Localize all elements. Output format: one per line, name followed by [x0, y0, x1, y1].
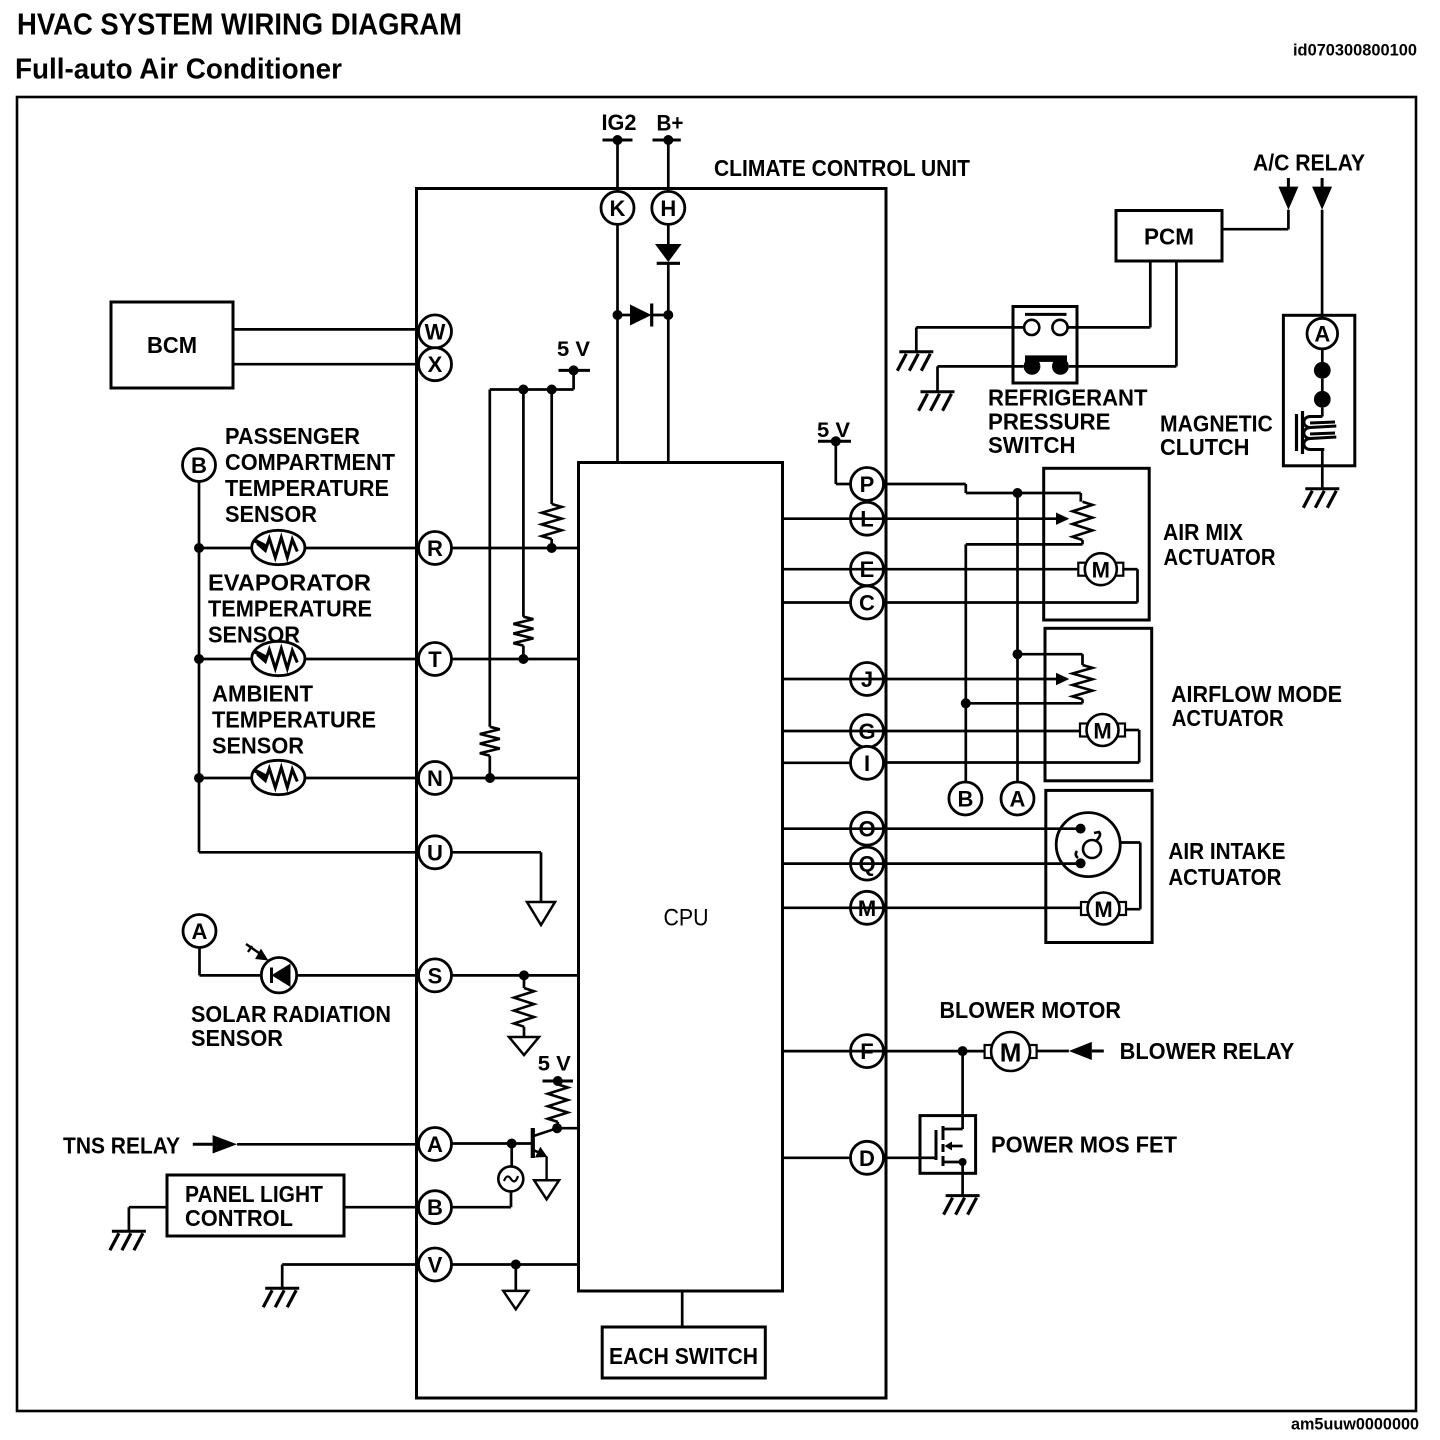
- label passenger compartment temperature sensor: [225, 423, 395, 527]
- label EACH SWITCH: [609, 1343, 758, 1369]
- wire Q into drum: [783, 858, 1086, 868]
- wire motor1 to C row: [884, 569, 1138, 602]
- svg-text:5 V: 5 V: [538, 1053, 571, 1076]
- power MOS FET box: [920, 1116, 976, 1174]
- svg-text:M: M: [1093, 719, 1111, 744]
- PCM box: [1116, 211, 1222, 262]
- wire H line below D1 to CPU: [667, 315, 670, 463]
- svg-text:P: P: [860, 472, 875, 497]
- doc id bottom right: [1291, 1415, 1419, 1434]
- svg-text:SOLAR RADIATION: SOLAR RADIATION: [191, 1001, 391, 1027]
- connector X: [419, 348, 452, 381]
- svg-text:A/C RELAY: A/C RELAY: [1253, 150, 1365, 176]
- wire S to CPU: [452, 974, 579, 977]
- wire coil to ground: [1321, 450, 1324, 489]
- resistor N-row pull-up: [480, 390, 500, 779]
- svg-text:ACTUATOR: ACTUATOR: [1168, 864, 1281, 890]
- connector R: [419, 532, 452, 565]
- label MAGNETIC CLUTCH: [1160, 411, 1273, 460]
- wire O into drum: [783, 824, 1086, 834]
- label ambient temperature sensor: [212, 681, 376, 759]
- blower motor M4: [985, 1032, 1037, 1071]
- svg-text:C: C: [859, 591, 875, 616]
- svg-text:BLOWER MOTOR: BLOWER MOTOR: [940, 997, 1122, 1023]
- label CLIMATE CONTROL UNIT: [714, 155, 970, 181]
- air mix actuator box: [1044, 468, 1150, 620]
- svg-text:TEMPERATURE: TEMPERATURE: [212, 707, 376, 733]
- svg-text:BLOWER RELAY: BLOWER RELAY: [1120, 1038, 1295, 1064]
- svg-text:N: N: [427, 766, 443, 791]
- svg-text:Full-auto Air Conditioner: Full-auto Air Conditioner: [15, 54, 342, 86]
- resistor R-row pull-up: [542, 390, 562, 549]
- chassis ground (switch bottom): [919, 392, 955, 411]
- svg-text:HVAC SYSTEM WIRING DIAGRAM: HVAC SYSTEM WIRING DIAGRAM: [17, 7, 462, 42]
- svg-text:EVAPORATOR: EVAPORATOR: [208, 570, 371, 596]
- terminal IG2: [602, 110, 637, 145]
- svg-text:PCM: PCM: [1144, 224, 1194, 250]
- svg-text:CPU: CPU: [664, 905, 709, 932]
- svg-text:ACTUATOR: ACTUATOR: [1172, 705, 1284, 731]
- connector I: [851, 746, 884, 779]
- clutch coil L1: [1297, 411, 1337, 454]
- doc id top right: [1293, 41, 1417, 60]
- svg-text:SWITCH: SWITCH: [988, 432, 1076, 458]
- pressure switch top bar: [1025, 313, 1067, 316]
- wire B to lamp: [452, 1206, 512, 1209]
- node bus R: [194, 543, 204, 553]
- wire P to air mix pot: [884, 484, 1081, 502]
- node on 5V bus (R pull-up): [547, 385, 557, 395]
- motor M3 (air intake): [1081, 893, 1126, 925]
- diode D1 (series on B+ line): [655, 244, 682, 315]
- wire T row left: [199, 658, 419, 661]
- svg-text:EACH SWITCH: EACH SWITCH: [609, 1343, 758, 1369]
- wire switch bottom-right to PCM: [1069, 261, 1177, 366]
- svg-text:AMBIENT: AMBIENT: [212, 681, 313, 707]
- svg-text:R: R: [427, 536, 443, 561]
- chassis ground (V): [263, 1288, 299, 1307]
- chassis ground (mosfet): [944, 1196, 980, 1215]
- signal ground below emitter: [534, 1180, 559, 1199]
- wire V to CPU: [452, 1263, 579, 1266]
- connector U: [419, 836, 452, 869]
- svg-text:M: M: [1092, 558, 1110, 583]
- arrow from A/C relay (to clutch): [1312, 178, 1332, 210]
- label PCM: [1144, 224, 1194, 250]
- panel light control box: [167, 1175, 344, 1236]
- node N row: [485, 773, 495, 783]
- node A-line top: [1013, 488, 1023, 498]
- connector A (TNS): [419, 1128, 452, 1161]
- node V pull-down: [511, 1260, 521, 1270]
- svg-text:AIR INTAKE: AIR INTAKE: [1168, 838, 1285, 864]
- clutch contact link: [1321, 379, 1324, 391]
- node bus N: [194, 773, 204, 783]
- connector E: [851, 553, 884, 586]
- wire R to CPU: [452, 547, 579, 550]
- svg-text:V: V: [428, 1253, 443, 1278]
- wire F to blower: [783, 1050, 986, 1053]
- wire motor2 to I row: [884, 730, 1140, 763]
- wire B+ to H: [667, 140, 670, 192]
- label evaporator temperature sensor: [208, 570, 372, 648]
- svg-text:SENSOR: SENSOR: [225, 501, 317, 527]
- air intake switch drum: [1056, 813, 1120, 877]
- resistor T-row pull-up: [513, 390, 533, 660]
- svg-text:B: B: [191, 453, 207, 478]
- motor M2 (airflow mode): [1080, 714, 1125, 746]
- connector N: [419, 762, 452, 795]
- svg-text:POWER MOS FET: POWER MOS FET: [991, 1132, 1177, 1158]
- svg-text:AIR MIX: AIR MIX: [1163, 519, 1244, 545]
- connector C: [851, 586, 884, 619]
- signal ground below U: [527, 902, 555, 925]
- connector O: [851, 812, 884, 845]
- chassis ground (switch top): [897, 352, 933, 371]
- svg-text:B: B: [957, 787, 973, 812]
- wire A to transistor base: [452, 1142, 533, 1145]
- pressure switch contact R (open): [1052, 320, 1067, 335]
- magnetic clutch box: [1283, 315, 1354, 466]
- node blower/mosfet: [958, 1046, 968, 1056]
- solar radiation sensor (photodiode): [246, 944, 297, 993]
- wire 5V bus: [490, 370, 574, 389]
- svg-text:S: S: [428, 963, 443, 988]
- label REFRIGERANT PRESSURE SWITCH: [988, 385, 1148, 458]
- svg-text:AIRFLOW MODE: AIRFLOW MODE: [1171, 681, 1342, 707]
- connector S: [419, 959, 452, 992]
- svg-text:am5uuw0000000: am5uuw0000000: [1291, 1415, 1419, 1434]
- svg-text:M: M: [1000, 1038, 1022, 1068]
- svg-text:T: T: [428, 647, 442, 672]
- airflow mode actuator box: [1045, 628, 1152, 781]
- wire A-line vertical: [1016, 493, 1019, 782]
- node S pull-down: [519, 970, 529, 980]
- wire B-line vertical: [964, 544, 967, 782]
- wire pot2 top: [1018, 654, 1083, 665]
- title: HVAC SYSTEM WIRING DIAGRAM: [17, 7, 462, 42]
- svg-text:I: I: [864, 751, 870, 776]
- svg-text:id070300800100: id070300800100: [1293, 41, 1417, 60]
- connector F: [851, 1035, 884, 1068]
- wire H to diode D1: [667, 224, 670, 244]
- svg-text:TEMPERATURE: TEMPERATURE: [208, 596, 372, 622]
- signal ground below S resistor: [509, 1037, 539, 1055]
- connector G: [851, 715, 884, 748]
- arrow from TNS relay: [193, 1135, 237, 1153]
- connector A (clutch): [1307, 318, 1338, 349]
- connector K: [601, 191, 634, 224]
- label BCM: [147, 332, 197, 358]
- wire A to S row: [200, 948, 262, 976]
- connector Q: [851, 847, 884, 880]
- wire solar to S: [296, 974, 419, 977]
- node bus T: [194, 654, 204, 664]
- wire K to CPU: [616, 224, 619, 462]
- clutch contact dot 2: [1314, 391, 1331, 408]
- wire I to CPU: [783, 761, 851, 764]
- terminal 5V (P row): [817, 419, 851, 446]
- label CPU: [664, 905, 709, 932]
- wire G to motor2: [783, 730, 1082, 733]
- thermistor passenger compartment sensor: [252, 530, 305, 564]
- refrigerant pressure switch box: [1013, 307, 1077, 384]
- signal ground below V: [503, 1291, 528, 1309]
- wire C to CPU: [783, 601, 851, 604]
- svg-text:SENSOR: SENSOR: [212, 733, 304, 759]
- wire sensor bus vertical: [198, 482, 201, 853]
- node on 5V bus (T pull-up): [518, 385, 528, 395]
- wire relay arrow to clutch: [1321, 210, 1324, 319]
- svg-text:A: A: [1010, 787, 1026, 812]
- connector D: [851, 1141, 884, 1174]
- svg-text:B+: B+: [657, 111, 684, 136]
- wire switch top-right to PCM: [1068, 261, 1151, 327]
- svg-text:PANEL LIGHT: PANEL LIGHT: [185, 1181, 323, 1207]
- connector A (pot supply): [1001, 782, 1034, 815]
- label PANEL LIGHT CONTROL: [185, 1181, 323, 1231]
- svg-text:A: A: [192, 919, 208, 944]
- wire 5V to P: [836, 441, 851, 484]
- wire dot2 to coil: [1309, 408, 1322, 417]
- wire panel light to ground: [129, 1207, 167, 1231]
- wire blower to relay arrow: [1036, 1050, 1069, 1053]
- svg-text:TNS RELAY: TNS RELAY: [63, 1133, 180, 1159]
- svg-text:IG2: IG2: [602, 110, 637, 135]
- wire pot1 bottom to B-line: [966, 543, 1083, 546]
- svg-text:5 V: 5 V: [557, 338, 590, 361]
- svg-text:B: B: [427, 1195, 443, 1220]
- wire relay arrow to PCM: [1222, 210, 1288, 230]
- connector H: [652, 191, 685, 224]
- connector B (panel light): [419, 1191, 452, 1224]
- wire N to CPU: [452, 777, 579, 780]
- wire mosfet source to ground: [961, 1173, 964, 1195]
- svg-text:A: A: [1314, 322, 1330, 347]
- wire switch top-left to ground: [916, 327, 1024, 351]
- svg-text:ACTUATOR: ACTUATOR: [1164, 544, 1276, 570]
- clutch contact wire: [1321, 349, 1324, 362]
- diode D2 (K to H cross tie): [613, 304, 674, 327]
- svg-text:REFRIGERANT: REFRIGERANT: [988, 385, 1148, 411]
- potentiometer airflow mode: [1073, 665, 1093, 703]
- connector V: [419, 1248, 452, 1281]
- svg-text:A: A: [427, 1132, 443, 1157]
- svg-text:X: X: [428, 352, 443, 377]
- arrow from blower relay: [1069, 1042, 1104, 1060]
- pressure switch closed contacts: [1024, 355, 1069, 374]
- terminal B+: [653, 111, 684, 146]
- node base/lamp: [507, 1139, 517, 1149]
- svg-text:SENSOR: SENSOR: [191, 1025, 283, 1051]
- svg-text:5 V: 5 V: [817, 419, 850, 442]
- wire R row left: [199, 547, 419, 550]
- label A/C RELAY: [1253, 150, 1365, 176]
- subtitle: Full-auto Air Conditioner: [15, 54, 342, 86]
- svg-text:M: M: [1094, 897, 1112, 922]
- svg-text:W: W: [425, 319, 446, 344]
- wire BCM to W: [233, 328, 419, 331]
- label AIR MIX ACTUATOR: [1163, 519, 1276, 570]
- svg-text:COMPARTMENT: COMPARTMENT: [225, 449, 395, 475]
- resistor S pull-down: [514, 975, 534, 1037]
- chassis ground (panel light): [110, 1231, 146, 1250]
- wire collector node to CPU: [557, 1127, 578, 1130]
- svg-text:K: K: [610, 196, 626, 221]
- wire TNS to A: [237, 1143, 418, 1146]
- wire BCM to X: [233, 363, 419, 366]
- wire blower node to mosfet drain: [961, 1051, 964, 1116]
- MOSFET Q2 internals: [920, 1116, 967, 1174]
- svg-text:TEMPERATURE: TEMPERATURE: [225, 475, 389, 501]
- connector T: [419, 643, 452, 676]
- svg-text:BCM: BCM: [147, 332, 197, 358]
- node pot2 top: [1013, 649, 1023, 659]
- thermistor ambient sensor: [252, 760, 305, 794]
- svg-text:CLUTCH: CLUTCH: [1160, 434, 1250, 460]
- climate control unit box: [417, 189, 887, 1399]
- svg-text:PASSENGER: PASSENGER: [225, 423, 360, 449]
- connector B (sensor ground bus): [183, 449, 216, 482]
- terminal 5V (panel light): [538, 1053, 573, 1086]
- svg-text:PRESSURE: PRESSURE: [988, 409, 1111, 435]
- wire IG2 to K: [616, 140, 619, 192]
- clutch contact dot 1: [1314, 362, 1331, 379]
- wire M to motor3: [783, 906, 1083, 909]
- pressure switch contact L (open): [1024, 320, 1039, 335]
- arrow from A/C relay (to PCM): [1278, 178, 1298, 210]
- node T row: [518, 654, 528, 664]
- connector J: [851, 663, 884, 696]
- label AIR INTAKE ACTUATOR: [1168, 838, 1285, 890]
- terminal 5V (sensor pull-ups): [557, 338, 590, 375]
- wire N row left: [199, 777, 419, 780]
- svg-text:MAGNETIC: MAGNETIC: [1160, 411, 1273, 437]
- resistor collector pull-up: [548, 1081, 568, 1128]
- label solar radiation sensor: [191, 1001, 391, 1051]
- CPU box U100: [579, 463, 783, 1292]
- wire panel light to B: [344, 1206, 419, 1209]
- connector L: [851, 502, 884, 535]
- wire U to ground: [452, 852, 542, 902]
- label TNS RELAY: [63, 1133, 180, 1159]
- potentiometer air mix: [1073, 502, 1093, 545]
- connector B (pot return): [949, 782, 982, 815]
- connector A (solar sensor): [183, 915, 216, 948]
- wire J wiper arrow: [783, 673, 1070, 685]
- svg-text:CLIMATE CONTROL UNIT: CLIMATE CONTROL UNIT: [714, 155, 970, 181]
- wire T to CPU: [452, 658, 579, 661]
- wire bus to U: [199, 851, 419, 854]
- wire drum to motor3: [1120, 843, 1140, 910]
- transistor Q1 (NPN, panel light driver): [533, 1128, 557, 1180]
- connector M (intake motor): [851, 891, 884, 924]
- svg-text:H: H: [660, 196, 676, 221]
- each switch box: [602, 1327, 765, 1378]
- label BLOWER MOTOR: [940, 997, 1122, 1023]
- wire CPU to each switch: [681, 1291, 684, 1327]
- svg-text:CONTROL: CONTROL: [185, 1205, 293, 1231]
- node R row: [547, 543, 557, 553]
- chassis ground (clutch): [1303, 489, 1339, 508]
- BCM box: [111, 302, 233, 388]
- wire V node to triangle: [514, 1265, 517, 1291]
- label BLOWER RELAY: [1120, 1038, 1295, 1064]
- wire V left to ground: [282, 1265, 418, 1289]
- thermistor evaporator sensor: [252, 641, 305, 675]
- connector W: [419, 315, 452, 348]
- label POWER MOS FET: [991, 1132, 1177, 1158]
- wire E to motor: [783, 568, 1080, 571]
- label AIRFLOW MODE ACTUATOR: [1171, 681, 1342, 731]
- wire L wiper arrow: [783, 513, 1070, 525]
- wire D to mosfet gate: [783, 1156, 921, 1159]
- wire switch bottom-left to ground: [938, 366, 1024, 391]
- motor M1 (air mix): [1078, 553, 1123, 585]
- svg-text:U: U: [427, 840, 443, 865]
- svg-text:D: D: [859, 1146, 875, 1171]
- node pot2 bottom: [961, 698, 971, 708]
- node collector: [552, 1123, 562, 1133]
- air intake actuator box: [1046, 790, 1152, 942]
- connector P: [851, 468, 884, 501]
- lamp (panel illumination): [498, 1144, 523, 1208]
- wire pot2 bottom to B-line: [966, 702, 1083, 705]
